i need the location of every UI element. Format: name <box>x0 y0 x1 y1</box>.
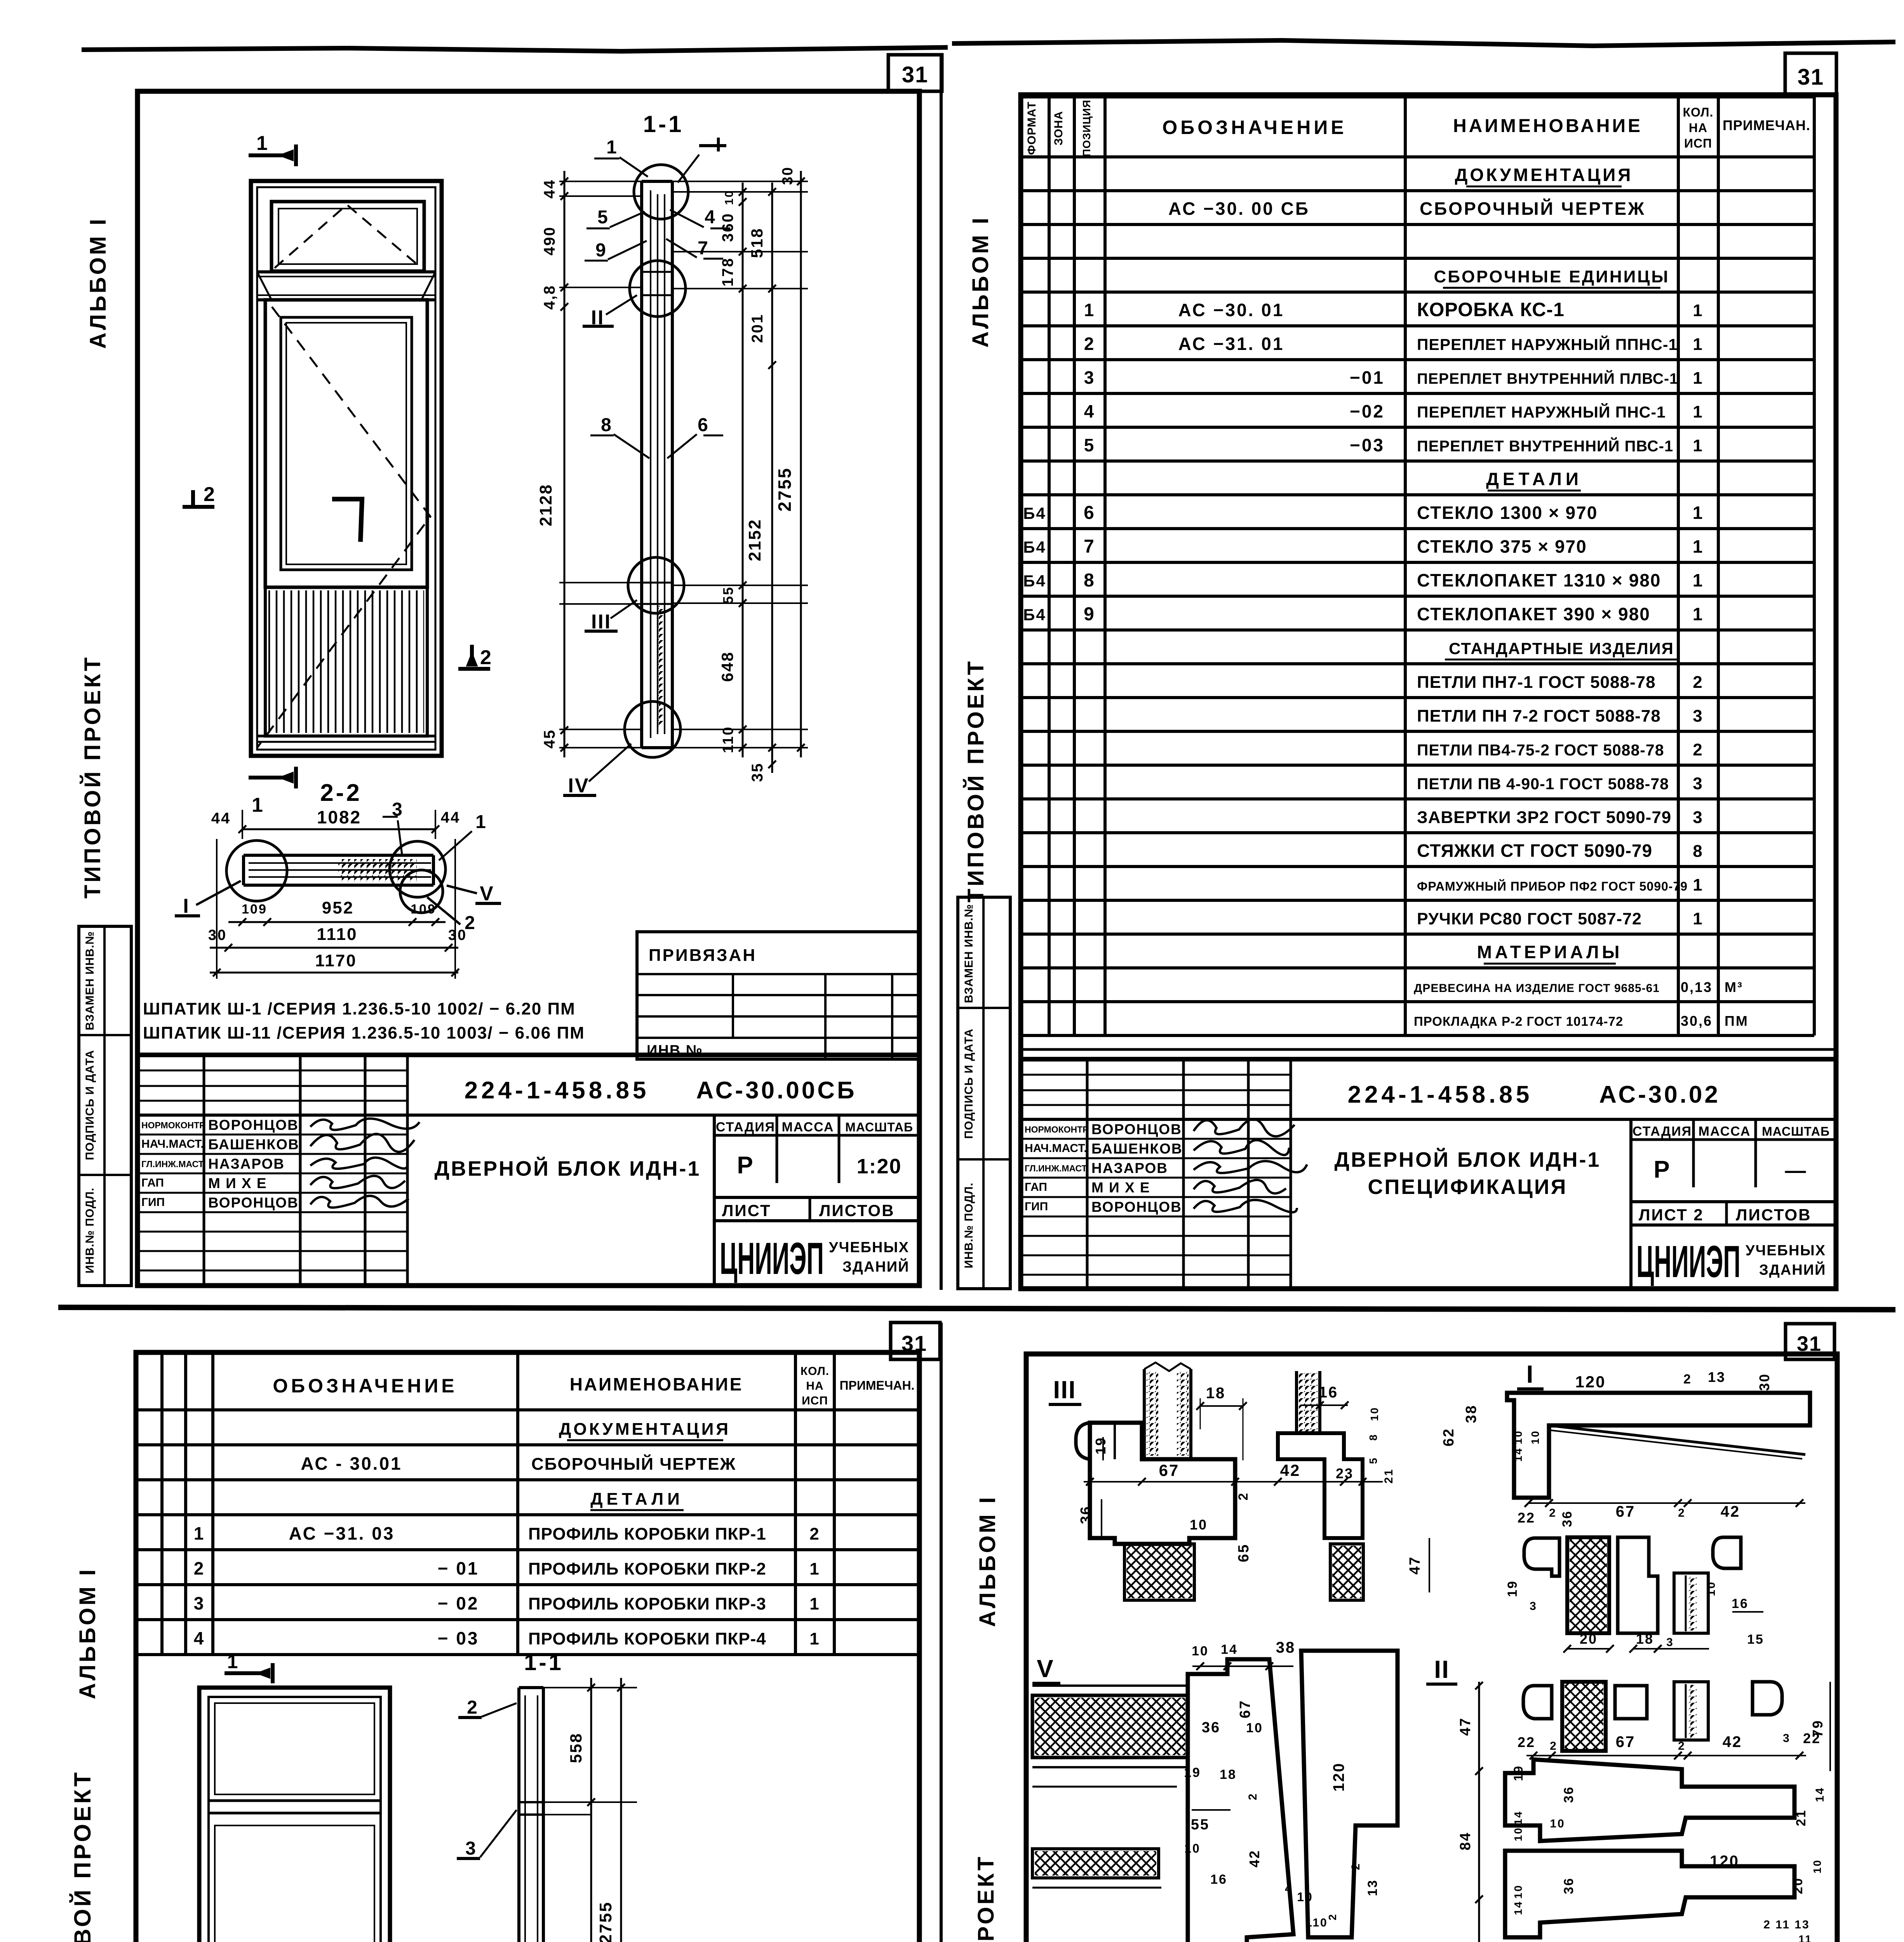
svg-text:ГЛ.ИНЖ.МАСТ: ГЛ.ИНЖ.МАСТ <box>1025 1163 1087 1173</box>
sheet 1 section mark 2 left <box>191 490 195 505</box>
svg-text:ОБОЗНАЧЕНИЕ: ОБОЗНАЧЕНИЕ <box>273 1375 457 1397</box>
svg-text:СТЕКЛОПАКЕТ 390 × 980: СТЕКЛОПАКЕТ 390 × 980 <box>1417 604 1650 624</box>
svg-text:10: 10 <box>1512 1884 1524 1898</box>
svg-text:Р: Р <box>1653 1156 1671 1183</box>
svg-text:3: 3 <box>1530 1600 1537 1613</box>
svg-text:ШПАТИК Ш-1 /СЕРИЯ 1.236.5-10 1: ШПАТИК Ш-1 /СЕРИЯ 1.236.5-10 1002/ − 6.2… <box>143 999 576 1018</box>
detail II central mullion profile upper <box>1505 1759 1794 1841</box>
svg-text:62: 62 <box>1441 1428 1457 1446</box>
sheet 1 section 1-1 detail circle III <box>628 557 684 613</box>
sheet 2 drawing frame <box>1021 95 1836 1289</box>
svg-text:47: 47 <box>1407 1556 1423 1575</box>
svg-text:ПРОФИЛЬ КОРОБКИ ПКР-4: ПРОФИЛЬ КОРОБКИ ПКР-4 <box>528 1629 766 1648</box>
svg-text:10: 10 <box>1529 1430 1541 1444</box>
sheet 1 section 2-2 detail circles right <box>390 841 446 897</box>
svg-text:4,8: 4,8 <box>541 285 558 310</box>
detail I head bar <box>1507 1393 1810 1498</box>
svg-text:952: 952 <box>322 898 354 917</box>
svg-text:10: 10 <box>1811 1859 1823 1873</box>
sheet 2 specification table grid <box>1021 95 1814 99</box>
sheet 1 section mark 2 right <box>470 645 474 666</box>
svg-text:1: 1 <box>256 132 269 155</box>
svg-text:ГИП: ГИП <box>1025 1200 1048 1213</box>
svg-text:М³: М³ <box>1725 979 1743 995</box>
svg-text:1: 1 <box>1693 335 1703 354</box>
svg-text:3: 3 <box>1693 774 1703 793</box>
svg-text:СТЕКЛО 1300 × 970: СТЕКЛО 1300 × 970 <box>1417 503 1598 523</box>
svg-text:6: 6 <box>698 415 709 435</box>
svg-text:1: 1 <box>1693 875 1703 894</box>
detail II upper sash blocks <box>1523 1686 1552 1719</box>
svg-text:1: 1 <box>227 1651 239 1672</box>
svg-text:АЛЬБОМ I: АЛЬБОМ I <box>75 1567 100 1699</box>
svg-text:67: 67 <box>1616 1733 1636 1751</box>
svg-text:СПЕЦИФИКАЦИЯ: СПЕЦИФИКАЦИЯ <box>1368 1175 1567 1199</box>
svg-text:38: 38 <box>1463 1404 1479 1423</box>
svg-text:201: 201 <box>749 313 766 343</box>
svg-text:109: 109 <box>242 902 267 917</box>
svg-text:ПРОКЛАДКА Р-2 ГОСТ 10174-72: ПРОКЛАДКА Р-2 ГОСТ 10174-72 <box>1414 1014 1623 1028</box>
svg-text:М И Х Е: М И Х Е <box>1091 1180 1150 1195</box>
svg-text:14: 14 <box>1512 1447 1524 1462</box>
svg-text:30: 30 <box>780 166 796 185</box>
svg-text:67: 67 <box>1237 1700 1253 1718</box>
svg-text:14: 14 <box>1512 1810 1524 1825</box>
sheet 1 section 2-2 dim row 952 <box>228 921 446 923</box>
sheet 1 door bottom panel with vertical boarding <box>265 587 427 736</box>
svg-text:1: 1 <box>1693 604 1704 624</box>
svg-text:ШПАТИК Ш-11 /СЕРИЯ 1.236.5-10: ШПАТИК Ш-11 /СЕРИЯ 1.236.5-10 1003/ − 6.… <box>143 1023 585 1042</box>
svg-text:1: 1 <box>1693 436 1703 455</box>
svg-text:ЦНИИЭП: ЦНИИЭП <box>1636 1236 1740 1287</box>
sheet 1 door handle mark <box>332 499 362 542</box>
svg-text:НАЧ.МАСТ.: НАЧ.МАСТ. <box>141 1138 204 1150</box>
svg-text:ИСП: ИСП <box>802 1394 828 1407</box>
svg-text:УЧЕБНЫХ: УЧЕБНЫХ <box>1746 1242 1826 1259</box>
detail I lower blocks <box>1524 1538 1559 1576</box>
svg-text:− 01: − 01 <box>438 1558 479 1578</box>
sheet 1 door block elevation outer frame <box>251 181 442 756</box>
svg-text:2: 2 <box>1678 1740 1686 1752</box>
svg-text:36: 36 <box>1560 1510 1575 1527</box>
svg-text:ВОРОНЦОВ: ВОРОНЦОВ <box>208 1195 299 1211</box>
svg-text:ДЕТАЛИ: ДЕТАЛИ <box>1486 469 1582 489</box>
svg-text:178: 178 <box>719 257 736 287</box>
sheet 1 door leaf <box>265 300 427 587</box>
svg-text:СБОРОЧНЫЙ ЧЕРТЕЖ: СБОРОЧНЫЙ ЧЕРТЕЖ <box>1420 198 1646 219</box>
svg-text:3: 3 <box>465 1838 477 1859</box>
svg-text:16: 16 <box>1210 1872 1227 1887</box>
svg-text:110: 110 <box>720 726 736 753</box>
svg-text:АС-30.00СБ: АС-30.00СБ <box>696 1077 856 1104</box>
svg-text:АС −31. 01: АС −31. 01 <box>1178 334 1284 354</box>
svg-text:2: 2 <box>480 646 493 669</box>
svg-text:НАЧ.МАСТ.: НАЧ.МАСТ. <box>1025 1142 1087 1155</box>
svg-text:ЛИСТ 2: ЛИСТ 2 <box>1639 1206 1704 1224</box>
svg-text:2: 2 <box>1550 1740 1558 1752</box>
svg-text:67: 67 <box>1616 1503 1636 1520</box>
svg-text:44: 44 <box>541 179 558 199</box>
svg-text:1: 1 <box>1084 300 1095 320</box>
sheet 1 section 2-2 dim row 1170 <box>210 972 458 974</box>
svg-text:13: 13 <box>1708 1369 1726 1385</box>
svg-text:АС-30.02: АС-30.02 <box>1599 1081 1720 1108</box>
svg-text:АЛЬБОМ I: АЛЬБОМ I <box>968 216 993 348</box>
svg-text:22: 22 <box>1803 1730 1821 1746</box>
svg-text:1: 1 <box>809 1559 820 1578</box>
page divider line between sheet rows <box>58 1307 1895 1310</box>
svg-text:ДЕТАЛИ: ДЕТАЛИ <box>590 1490 684 1509</box>
svg-text:30,6: 30,6 <box>1681 1013 1713 1029</box>
sheet 1 section 2-2 dim row 1110 <box>210 947 458 949</box>
svg-text:3: 3 <box>1084 367 1095 388</box>
sheet 1 section mark 1 top <box>249 153 293 157</box>
detail II right dim chain <box>1829 1682 1831 1771</box>
svg-text:НА: НА <box>806 1380 823 1392</box>
svg-text:2: 2 <box>1236 1492 1251 1500</box>
svg-text:СТЕКЛОПАКЕТ 1310 × 980: СТЕКЛОПАКЕТ 1310 × 980 <box>1417 570 1661 590</box>
svg-text:2152: 2152 <box>745 519 764 561</box>
svg-text:ГАП: ГАП <box>141 1176 164 1189</box>
svg-text:ВЗАМЕН ИНВ.№: ВЗАМЕН ИНВ.№ <box>84 931 96 1030</box>
svg-text:10: 10 <box>1184 1841 1201 1855</box>
sheet 1 section 1-1 member profile <box>640 181 643 748</box>
svg-text:2-2: 2-2 <box>320 780 362 806</box>
svg-text:2: 2 <box>1349 1862 1362 1870</box>
sheet 3 specification table grid <box>160 1352 164 1655</box>
svg-text:36: 36 <box>1078 1505 1094 1524</box>
detail III wall hatch above <box>1143 1369 1146 1458</box>
svg-text:2: 2 <box>194 1558 205 1578</box>
svg-text:МАТЕРИАЛЫ: МАТЕРИАЛЫ <box>1477 942 1623 962</box>
sheet 3 section 1-1 dim chains <box>590 1678 592 1942</box>
svg-text:10: 10 <box>1512 1827 1524 1841</box>
svg-text:1-1: 1-1 <box>524 1650 564 1675</box>
sheet 1 section 2-2 detail circle left <box>226 840 287 901</box>
svg-text:НАЗАРОВ: НАЗАРОВ <box>208 1156 285 1172</box>
svg-text:14: 14 <box>1512 1900 1524 1915</box>
svg-text:ПЕТЛИ ПВ4-75-2 ГОСТ 5088-78: ПЕТЛИ ПВ4-75-2 ГОСТ 5088-78 <box>1417 741 1664 759</box>
svg-text:2: 2 <box>1326 1913 1338 1921</box>
svg-text:42: 42 <box>1280 1461 1301 1479</box>
svg-text:2755: 2755 <box>774 467 795 512</box>
svg-text:ПЕРЕПЛЕТ НАРУЖНЫЙ ПНС-1: ПЕРЕПЛЕТ НАРУЖНЫЙ ПНС-1 <box>1417 403 1666 421</box>
svg-text:2: 2 <box>204 483 216 506</box>
svg-text:22: 22 <box>1518 1734 1535 1750</box>
sheet 1 section 2-2 infill hatch <box>338 859 417 882</box>
svg-text:ПОЗИЦИЯ: ПОЗИЦИЯ <box>1081 99 1093 157</box>
svg-text:36: 36 <box>1561 1786 1576 1803</box>
svg-text:35: 35 <box>749 762 766 782</box>
svg-text:ТИПОВОЙ ПРОЕКТ: ТИПОВОЙ ПРОЕКТ <box>973 1855 999 1942</box>
svg-text:65: 65 <box>1236 1544 1252 1562</box>
svg-text:СТЯЖКИ СТ ГОСТ 5090-79: СТЯЖКИ СТ ГОСТ 5090-79 <box>1417 840 1652 861</box>
svg-text:Р: Р <box>737 1152 754 1179</box>
svg-text:23: 23 <box>1336 1465 1354 1481</box>
svg-text:1: 1 <box>809 1594 820 1613</box>
svg-text:5: 5 <box>1367 1457 1379 1464</box>
sheet 3 section mark 1 top <box>225 1671 270 1675</box>
svg-text:2: 2 <box>1678 1507 1686 1519</box>
svg-text:2128: 2128 <box>536 484 555 526</box>
svg-text:19: 19 <box>1505 1580 1520 1597</box>
sheet 1 privyazan table <box>637 932 919 1059</box>
svg-text:22: 22 <box>1518 1510 1535 1526</box>
svg-text:14: 14 <box>1813 1787 1826 1802</box>
svg-text:18: 18 <box>1636 1631 1654 1647</box>
svg-text:120: 120 <box>1330 1762 1347 1792</box>
detail V dim lines <box>1192 1665 1293 1667</box>
svg-text:2: 2 <box>1549 1507 1557 1519</box>
svg-text:АС −30. 00 СБ: АС −30. 00 СБ <box>1168 198 1310 219</box>
svg-text:1: 1 <box>1693 570 1704 590</box>
svg-text:ЗАВЕРТКИ ЗР2 ГОСТ 5090-79: ЗАВЕРТКИ ЗР2 ГОСТ 5090-79 <box>1417 808 1671 827</box>
svg-text:−01: −01 <box>1350 367 1385 388</box>
svg-text:36: 36 <box>1202 1719 1220 1736</box>
sheet 1 section 1-1 right dimension chain B <box>771 183 773 773</box>
sheet 1 section 1-1 extension lines <box>559 181 642 182</box>
svg-text:558: 558 <box>567 1732 585 1763</box>
sheet 3 outer right edge line <box>940 1323 943 1942</box>
svg-text:45: 45 <box>541 729 558 749</box>
svg-text:ЛИСТ: ЛИСТ <box>722 1201 771 1220</box>
svg-text:18: 18 <box>1220 1767 1237 1782</box>
sheet 1 section 1-1 right dimension chain C overall <box>800 171 802 757</box>
sheet 1 transom dashed opening lines <box>275 205 421 268</box>
svg-text:ТИПОВОЙ ПРОЕКТ: ТИПОВОЙ ПРОЕКТ <box>80 655 105 899</box>
svg-text:V: V <box>480 882 494 905</box>
detail III dimension lines <box>1084 1481 1383 1483</box>
svg-text:10: 10 <box>1246 1721 1263 1735</box>
svg-text:31: 31 <box>902 62 929 87</box>
svg-text:II: II <box>1434 1655 1450 1683</box>
svg-text:ПЕТЛИ ПН 7-2 ГОСТ 5088-78: ПЕТЛИ ПН 7-2 ГОСТ 5088-78 <box>1417 706 1661 726</box>
svg-text:ПРИМЕЧАН.: ПРИМЕЧАН. <box>840 1378 915 1392</box>
svg-text:1: 1 <box>1693 369 1703 388</box>
svg-text:ЛИСТОВ: ЛИСТОВ <box>1736 1206 1812 1224</box>
svg-text:38: 38 <box>1276 1639 1296 1656</box>
svg-text:ТИПОВОЙ ПРОЕКТ: ТИПОВОЙ ПРОЕКТ <box>70 1770 96 1942</box>
svg-text:36: 36 <box>1561 1877 1576 1894</box>
svg-text:ИНВ.№ ПОДЛ.: ИНВ.№ ПОДЛ. <box>962 1182 975 1268</box>
svg-text:6: 6 <box>1084 503 1095 523</box>
svg-text:ДВЕРНОЙ БЛОК ИДН-1: ДВЕРНОЙ БЛОК ИДН-1 <box>435 1157 701 1180</box>
detail III sill crosshatch block <box>1124 1544 1194 1600</box>
svg-text:СТАНДАРТНЫЕ ИЗДЕЛИЯ: СТАНДАРТНЫЕ ИЗДЕЛИЯ <box>1449 639 1674 658</box>
svg-text:ВОРОНЦОВ: ВОРОНЦОВ <box>1091 1121 1182 1137</box>
svg-text:67: 67 <box>1159 1461 1180 1479</box>
svg-text:42: 42 <box>1723 1733 1742 1751</box>
svg-text:МАСШТАБ: МАСШТАБ <box>1762 1124 1830 1138</box>
sheet 1 door swing dashed line <box>257 307 430 748</box>
svg-text:1: 1 <box>194 1523 205 1544</box>
svg-text:ОБОЗНАЧЕНИЕ: ОБОЗНАЧЕНИЕ <box>1162 117 1347 138</box>
sheet 1 section 1-1 right dimension chain A <box>742 183 744 757</box>
sheet 1 section 2-2 dim row 1082 <box>242 828 435 830</box>
svg-text:—: — <box>1785 1159 1807 1182</box>
svg-text:V: V <box>1037 1655 1055 1683</box>
svg-text:Б4: Б4 <box>1023 572 1046 590</box>
svg-text:1: 1 <box>1693 536 1704 557</box>
detail V frame profile <box>1188 1659 1293 1942</box>
svg-text:20: 20 <box>1580 1631 1598 1647</box>
svg-text:8: 8 <box>601 415 613 435</box>
svg-text:ДОКУМЕНТАЦИЯ: ДОКУМЕНТАЦИЯ <box>559 1420 731 1439</box>
sheet 3 drawing frame <box>136 1352 919 1942</box>
sheet 2 band line above title block <box>1021 1048 1836 1051</box>
svg-text:10: 10 <box>1368 1406 1380 1421</box>
svg-text:4: 4 <box>1285 1882 1293 1895</box>
svg-text:1: 1 <box>1693 503 1704 523</box>
svg-text:224-1-458.85: 224-1-458.85 <box>1348 1081 1533 1108</box>
svg-text:НАИМЕНОВАНИЕ: НАИМЕНОВАНИЕ <box>570 1374 743 1394</box>
svg-text:−03: −03 <box>1350 435 1385 455</box>
svg-text:2: 2 <box>467 1697 479 1718</box>
svg-text:1: 1 <box>1693 402 1703 421</box>
sheet 1 margin stamp boxes <box>79 926 131 1286</box>
svg-text:109: 109 <box>411 902 436 917</box>
svg-text:ПЕРЕПЛЕТ НАРУЖНЫЙ ППНС-1: ПЕРЕПЛЕТ НАРУЖНЫЙ ППНС-1 <box>1417 336 1678 353</box>
sheet 3 page number box 31 <box>891 1323 940 1359</box>
svg-text:КОРОБКА КС-1: КОРОБКА КС-1 <box>1417 299 1565 320</box>
svg-text:АЛЬБОМ I: АЛЬБОМ I <box>975 1495 1000 1627</box>
svg-text:4: 4 <box>1084 401 1095 421</box>
svg-text:НАЗАРОВ: НАЗАРОВ <box>1091 1160 1168 1176</box>
svg-text:III: III <box>1053 1376 1076 1404</box>
svg-text:ЗДАНИЙ: ЗДАНИЙ <box>842 1258 909 1275</box>
svg-text:3: 3 <box>194 1593 205 1613</box>
svg-text:ПРОФИЛЬ КОРОБКИ ПКР-1: ПРОФИЛЬ КОРОБКИ ПКР-1 <box>528 1524 766 1544</box>
svg-text:РУЧКИ РС80 ГОСТ 5087-72: РУЧКИ РС80 ГОСТ 5087-72 <box>1417 910 1642 928</box>
svg-text:ВОРОНЦОВ: ВОРОНЦОВ <box>1091 1199 1182 1215</box>
detail V wall slab lower <box>1032 1849 1159 1878</box>
svg-text:ФРАМУЖНЫЙ ПРИБОР ПФ2 ГОСТ 5090: ФРАМУЖНЫЙ ПРИБОР ПФ2 ГОСТ 5090-79 <box>1417 879 1688 893</box>
svg-text:ПЕТЛИ ПН7-1 ГОСТ 5088-78: ПЕТЛИ ПН7-1 ГОСТ 5088-78 <box>1417 673 1656 692</box>
sheet 1 door bottom rail <box>257 735 435 738</box>
svg-text:9: 9 <box>595 240 607 261</box>
svg-text:ТИПОВОЙ ПРОЕКТ: ТИПОВОЙ ПРОЕКТ <box>963 659 989 903</box>
svg-text:5: 5 <box>1084 435 1095 455</box>
svg-text:11: 11 <box>1798 1933 1812 1942</box>
svg-text:ПРОФИЛЬ КОРОБКИ ПКР-2: ПРОФИЛЬ КОРОБКИ ПКР-2 <box>528 1559 766 1578</box>
sheet 2 title block <box>1021 1059 1836 1289</box>
svg-text:М И Х Е: М И Х Е <box>208 1175 267 1191</box>
svg-text:3: 3 <box>1783 1732 1791 1745</box>
sheet 1 page number box 31 <box>888 55 942 91</box>
svg-text:10: 10 <box>1550 1817 1565 1830</box>
svg-text:ЦНИИЭП: ЦНИИЭП <box>720 1233 824 1284</box>
detail I mid bar <box>1528 1466 1800 1498</box>
svg-text:2: 2 <box>1683 1372 1692 1387</box>
svg-text:55: 55 <box>720 586 736 604</box>
svg-text:УЧЕБНЫХ: УЧЕБНЫХ <box>829 1239 909 1256</box>
detail V wall slab upper <box>1032 1695 1188 1758</box>
svg-text:120: 120 <box>1575 1373 1606 1391</box>
svg-text:МАСШТАБ: МАСШТАБ <box>845 1120 913 1134</box>
svg-text:3: 3 <box>1666 1636 1674 1649</box>
sheet 1 door elevation inner frame line <box>257 187 435 750</box>
svg-text:− 02: − 02 <box>438 1593 479 1613</box>
svg-text:КОЛ.: КОЛ. <box>801 1365 829 1378</box>
svg-text:IV: IV <box>568 774 589 797</box>
svg-text:2755: 2755 <box>596 1901 615 1942</box>
svg-text:ЗДАНИЙ: ЗДАНИЙ <box>1759 1261 1826 1278</box>
svg-text:110: 110 <box>1305 1916 1328 1929</box>
detail II central mullion profile lower <box>1505 1851 1794 1937</box>
svg-text:1: 1 <box>252 794 264 816</box>
sheet 1 section 1-1 detail circle II <box>630 261 686 317</box>
svg-text:ПРИМЕЧАН.: ПРИМЕЧАН. <box>1723 117 1810 133</box>
svg-text:30: 30 <box>1756 1373 1772 1391</box>
svg-text:ДРЕВЕСИНА НА ИЗДЕЛИЕ ГОСТ 9685: ДРЕВЕСИНА НА ИЗДЕЛИЕ ГОСТ 9685-61 <box>1414 982 1660 995</box>
svg-text:1: 1 <box>1693 909 1703 928</box>
svg-text:490: 490 <box>541 226 558 256</box>
svg-text:1: 1 <box>606 137 618 158</box>
svg-text:СТАДИЯ: СТАДИЯ <box>716 1120 775 1135</box>
svg-text:7: 7 <box>1084 536 1095 557</box>
svg-text:ДОКУМЕНТАЦИЯ: ДОКУМЕНТАЦИЯ <box>1455 165 1633 185</box>
svg-text:ГАП: ГАП <box>1025 1181 1047 1194</box>
svg-text:10: 10 <box>1705 1581 1718 1596</box>
svg-text:224-1-458.85: 224-1-458.85 <box>465 1077 650 1104</box>
svg-text:1: 1 <box>809 1629 820 1648</box>
svg-text:20: 20 <box>1791 1877 1805 1894</box>
svg-text:2 11 13: 2 11 13 <box>1763 1918 1810 1931</box>
svg-text:ВОРОНЦОВ: ВОРОНЦОВ <box>208 1117 299 1133</box>
sheet 1 section 1-1 left dimension chain <box>564 171 566 757</box>
svg-text:1170: 1170 <box>315 951 357 970</box>
svg-text:I: I <box>1526 1360 1535 1388</box>
svg-text:518: 518 <box>748 227 766 258</box>
svg-text:0,13: 0,13 <box>1681 979 1713 995</box>
svg-text:Б4: Б4 <box>1023 538 1046 556</box>
svg-text:АС −30. 01: АС −30. 01 <box>1178 300 1284 320</box>
svg-text:30: 30 <box>448 927 467 943</box>
svg-text:10: 10 <box>1190 1517 1208 1533</box>
svg-text:47: 47 <box>1457 1717 1474 1736</box>
svg-text:ГЛ.ИНЖ.МАСТ: ГЛ.ИНЖ.МАСТ <box>141 1159 204 1169</box>
svg-text:15: 15 <box>1747 1632 1764 1647</box>
detail I lower dim lines <box>1567 1648 1610 1650</box>
svg-text:ПЕРЕПЛЕТ ВНУТРЕННИЙ ПВС-1: ПЕРЕПЛЕТ ВНУТРЕННИЙ ПВС-1 <box>1417 437 1673 455</box>
svg-text:ПОДПИСЬ И ДАТА: ПОДПИСЬ И ДАТА <box>962 1028 975 1139</box>
svg-text:− 03: − 03 <box>438 1628 479 1648</box>
sheet 2 page number box 31 <box>1785 53 1836 95</box>
svg-text:БАШЕНКОВ: БАШЕНКОВ <box>1091 1141 1183 1157</box>
svg-text:120: 120 <box>1710 1853 1739 1870</box>
svg-text:44: 44 <box>441 809 461 826</box>
sheet 3 frame transom divider <box>209 1799 381 1802</box>
svg-text:ДВЕРНОЙ БЛОК ИДН-1: ДВЕРНОЙ БЛОК ИДН-1 <box>1335 1148 1601 1171</box>
sheet 2 top deckle edge line <box>952 40 1895 46</box>
svg-text:360: 360 <box>719 212 736 242</box>
svg-text:ФОРМАТ: ФОРМАТ <box>1025 101 1038 155</box>
sheet 3 frame elevation outline <box>199 1688 390 1942</box>
svg-text:1: 1 <box>1693 301 1703 320</box>
svg-text:13: 13 <box>1365 1879 1380 1896</box>
svg-text:1110: 1110 <box>317 925 357 944</box>
sheet 1 section 1-1 glazing hatch <box>658 606 664 726</box>
svg-text:ПЕТЛИ ПВ 4-90-1 ГОСТ 5088-78: ПЕТЛИ ПВ 4-90-1 ГОСТ 5088-78 <box>1417 775 1669 793</box>
svg-text:1:20: 1:20 <box>856 1155 902 1178</box>
svg-text:7: 7 <box>698 238 709 259</box>
svg-text:10: 10 <box>723 190 736 205</box>
svg-text:СТЕКЛО 375 × 970: СТЕКЛО 375 × 970 <box>1417 536 1587 557</box>
svg-text:МАССА: МАССА <box>782 1120 834 1135</box>
sheet 1 section 1-1 detail circle I <box>634 165 688 219</box>
svg-text:2: 2 <box>1246 1792 1259 1800</box>
svg-text:НОРМОКОНТР: НОРМОКОНТР <box>141 1120 205 1130</box>
